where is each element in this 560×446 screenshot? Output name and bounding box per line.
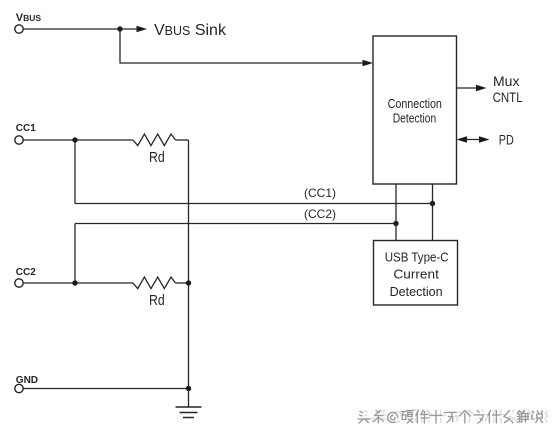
svg-text:PD: PD — [499, 133, 514, 148]
junction VBUS node — [117, 26, 122, 31]
junction R2 to ground wire — [186, 280, 191, 285]
wire resistor R1 to corner — [176, 139, 189, 141]
port VBUS terminal circle — [15, 25, 23, 33]
port CC1 terminal circle — [15, 136, 23, 144]
wire CC1 to resistor — [23, 139, 133, 141]
svg-text:GND: GND — [16, 375, 38, 386]
resistor R1 Rd zigzag — [133, 134, 176, 146]
svg-text:VBUS: VBUS — [16, 12, 42, 24]
svg-text:VBUS Sink: VBUS Sink — [154, 22, 227, 39]
junction (CC1) to U1 wire — [430, 201, 435, 206]
resistor R2 Rd zigzag — [133, 277, 176, 289]
port CC2 terminal circle — [15, 279, 23, 287]
svg-text:(CC2): (CC2) — [304, 207, 336, 221]
wire CC1 down to (CC1) net — [74, 140, 76, 204]
block U1 Connection Detection — [373, 36, 457, 184]
svg-text:(CC1): (CC1) — [304, 186, 336, 200]
junction CC2 node — [72, 280, 77, 285]
svg-text:CC1: CC1 — [16, 123, 36, 134]
arrowhead into U1 — [363, 60, 374, 67]
wire U1 to U2 left (CC2 sense) — [395, 184, 397, 241]
wire (CC1) net horizontal — [75, 203, 433, 205]
port GND terminal circle — [15, 384, 23, 392]
wire ground stub — [188, 389, 190, 408]
svg-text:USB Type-C: USB Type-C — [385, 250, 449, 264]
svg-text:Mux: Mux — [493, 73, 519, 89]
arrow PD bidirectional — [457, 136, 490, 143]
arrow to VBUS Sink — [120, 26, 147, 33]
junction (CC2) to U1 wire — [393, 221, 398, 226]
svg-text:Detection: Detection — [393, 110, 437, 125]
wire VBUS horizontal — [23, 28, 120, 30]
wire (CC2) net horizontal — [75, 223, 396, 225]
arrow Mux CNTL output — [457, 85, 487, 92]
svg-text:Rd: Rd — [149, 150, 165, 166]
svg-text:Rd: Rd — [149, 293, 165, 309]
wire VBUS down and right to U1 — [120, 29, 366, 63]
wire GND horizontal — [23, 388, 188, 390]
label Mux CNTL — [493, 73, 523, 105]
svg-text:CNTL: CNTL — [493, 89, 523, 105]
svg-text:Detection: Detection — [390, 285, 443, 299]
svg-text:Connection: Connection — [388, 96, 442, 111]
wire Rd common vertical to ground — [188, 140, 190, 389]
wire (CC2) vertical from CC2 — [74, 224, 76, 284]
junction CC1 node — [72, 137, 77, 142]
block U2 USB Type-C Current Detection — [374, 241, 458, 306]
wire CC2 to resistor — [23, 282, 133, 284]
ground symbol — [176, 407, 202, 418]
svg-text:Current: Current — [393, 267, 439, 281]
junction GND node — [186, 386, 191, 391]
wire U1 to U2 right (CC1 sense) — [432, 184, 434, 241]
wire resistor R2 to vertical — [176, 282, 189, 284]
svg-text:CC2: CC2 — [16, 267, 36, 278]
